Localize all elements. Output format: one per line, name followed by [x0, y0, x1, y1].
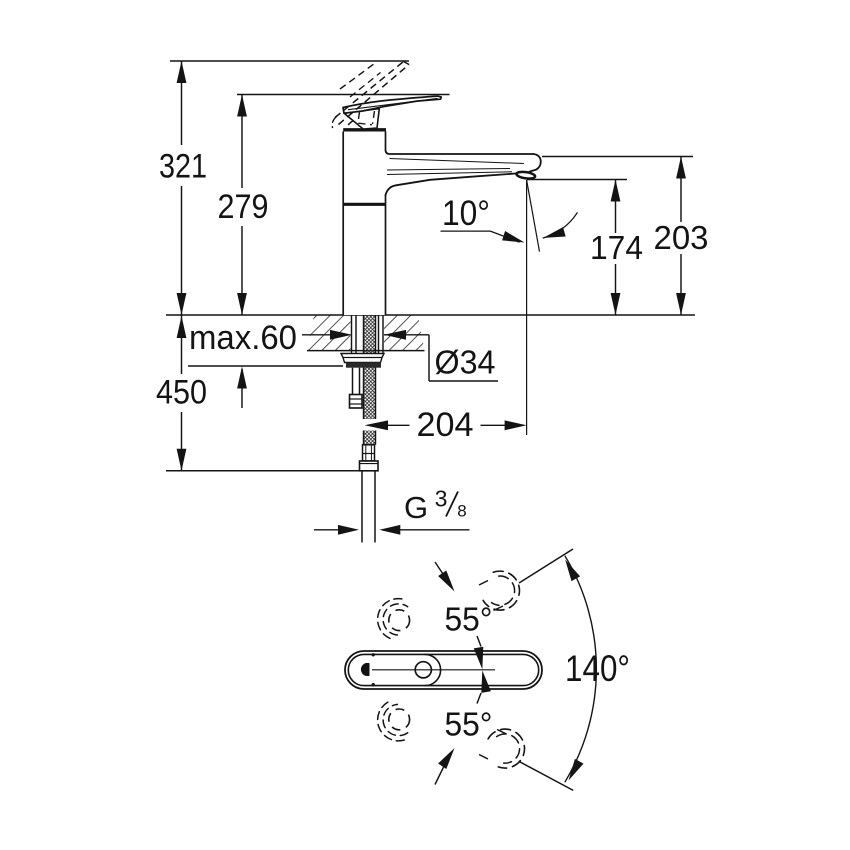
svg-text:10°: 10° — [442, 194, 490, 233]
svg-text:G: G — [404, 490, 428, 525]
svg-text:55°: 55° — [445, 706, 493, 743]
svg-text:204: 204 — [417, 406, 474, 444]
svg-text:8: 8 — [457, 502, 466, 521]
svg-text:203: 203 — [654, 219, 709, 256]
svg-text:55°: 55° — [445, 601, 493, 638]
svg-text:Ø34: Ø34 — [435, 343, 496, 380]
svg-text:174: 174 — [590, 229, 643, 266]
svg-text:450: 450 — [156, 374, 207, 412]
svg-text:140°: 140° — [565, 648, 630, 689]
svg-text:max.60: max.60 — [189, 319, 297, 357]
svg-text:321: 321 — [159, 148, 207, 186]
svg-text:279: 279 — [218, 188, 269, 226]
svg-text:3: 3 — [435, 486, 448, 512]
